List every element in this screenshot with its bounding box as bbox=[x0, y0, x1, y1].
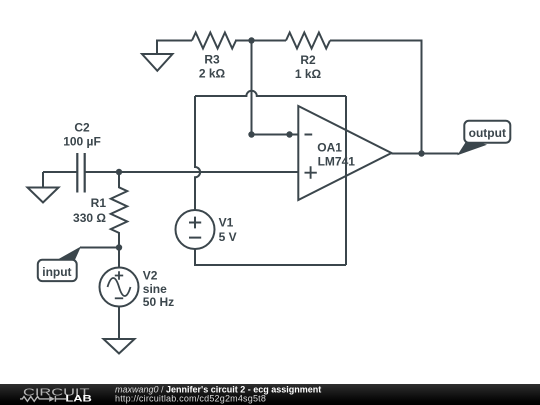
flag: output (box) bbox=[464, 121, 510, 143]
resistor R3 bbox=[192, 33, 236, 49]
wire: R3 to junction bbox=[235, 40, 252, 42]
flag: input (tail) bbox=[57, 248, 81, 261]
svg-text:R1: R1 bbox=[91, 196, 107, 210]
svg-text:C2: C2 bbox=[74, 121, 90, 135]
svg-text:V2: V2 bbox=[143, 269, 158, 283]
svg-text:LM741: LM741 bbox=[318, 155, 356, 169]
svg-text:OA1: OA1 bbox=[317, 141, 342, 155]
op-amp non-inverting input plus sign bbox=[305, 166, 317, 179]
wire: junction down to inverting input bbox=[251, 41, 253, 135]
flag: output (tail) bbox=[459, 139, 486, 154]
wire: top-left ground to R3 bbox=[157, 41, 192, 55]
wire: V1 bottom to negative rail bbox=[195, 249, 346, 265]
svg-text:1 kΩ: 1 kΩ bbox=[295, 67, 322, 81]
node: output junction bbox=[418, 150, 424, 156]
wire: inverting input bbox=[252, 134, 299, 136]
op-amp inverting input minus sign bbox=[305, 134, 313, 136]
node: R3/R2 junction bbox=[248, 37, 254, 43]
svg-text:http://circuitlab.com/cd52g2m4: http://circuitlab.com/cd52g2m4sg5t8 bbox=[115, 394, 266, 404]
svg-text:R3: R3 bbox=[204, 53, 220, 67]
voltage source V1 circle bbox=[176, 210, 215, 249]
wire: V2 to ground bbox=[118, 307, 120, 340]
svg-text:input: input bbox=[42, 265, 71, 279]
svg-text:sine: sine bbox=[143, 282, 167, 296]
resistor R1 bbox=[111, 172, 127, 248]
footer logo resistor zigzag bbox=[20, 397, 49, 402]
V2 plus sign bbox=[115, 271, 123, 279]
wire: R1 bottom to V2 bbox=[118, 248, 120, 268]
svg-text:2 kΩ: 2 kΩ bbox=[199, 67, 226, 81]
svg-text:100 µF: 100 µF bbox=[63, 135, 101, 149]
node: R1 bottom / input junction bbox=[116, 244, 122, 250]
svg-text:330 Ω: 330 Ω bbox=[73, 211, 106, 225]
svg-text:R2: R2 bbox=[300, 53, 316, 67]
flag: input (box) bbox=[38, 260, 77, 281]
ground (left, at C2) bbox=[28, 172, 59, 203]
ground (top-left) bbox=[142, 54, 173, 71]
V1 plus sign bbox=[189, 217, 201, 229]
svg-text:5 V: 5 V bbox=[219, 230, 237, 244]
svg-text:50 Hz: 50 Hz bbox=[143, 295, 174, 309]
resistor R2 bbox=[286, 33, 330, 49]
V1 minus sign bbox=[189, 237, 201, 239]
wire: op-amp output bbox=[392, 153, 459, 155]
wire: ground to capacitor C2 bbox=[43, 171, 77, 173]
svg-text:V1: V1 bbox=[219, 216, 234, 230]
V2 minus sign bbox=[115, 297, 123, 299]
footer bar bbox=[0, 384, 540, 405]
wire: main node C2 to op-amp non-inverting input bbox=[85, 171, 299, 173]
svg-text:output: output bbox=[469, 126, 506, 140]
node: R1 top junction bbox=[116, 169, 122, 175]
wire: V1 supply rail through op-amp bbox=[345, 96, 347, 265]
node: inverting input junction bbox=[248, 131, 254, 137]
svg-text:LAB: LAB bbox=[65, 394, 92, 404]
wire: V1 positive rail with hop over inverting riser bbox=[195, 91, 346, 96]
capacitor C2 bbox=[77, 153, 84, 193]
voltage source V2 circle bbox=[100, 268, 139, 307]
ground (below V2) bbox=[104, 339, 135, 354]
V2 sine symbol bbox=[108, 278, 131, 296]
footer logo diode bbox=[49, 396, 55, 402]
wire: V1 top riser with hop over main wire bbox=[195, 96, 200, 210]
op-amp OA1 triangle bbox=[298, 106, 391, 200]
wire: input node bbox=[80, 247, 119, 249]
wire: junction to R2 bbox=[252, 40, 287, 42]
node: inverting input second junction bbox=[286, 131, 292, 137]
wire: R2 to output node bbox=[330, 41, 422, 154]
